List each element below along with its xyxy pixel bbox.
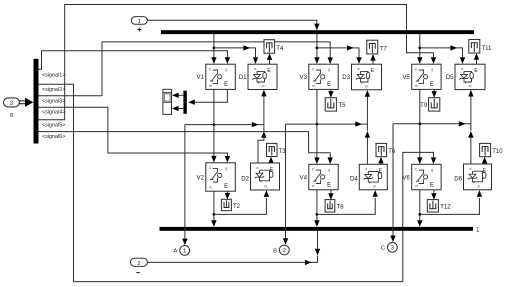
demux (gate signals) — [34, 59, 39, 144]
svg-text:1: 1 — [138, 19, 141, 25]
wire V2 E to terminator T2 — [225, 191, 230, 199]
svg-text:<signal6>: <signal6> — [42, 134, 65, 140]
output port A (1) — [174, 246, 190, 256]
svg-text:m: m — [264, 185, 267, 189]
svg-text:g: g — [328, 68, 330, 72]
terminator T8 — [325, 200, 335, 212]
svg-text:g: g — [10, 112, 13, 118]
svg-text:T5: T5 — [339, 103, 347, 109]
svg-text:V5: V5 — [402, 74, 410, 81]
wire V5 E to terminator T9 — [432, 89, 437, 97]
wire DC+ to V5 collector and D5 anode (leg 3) — [417, 34, 465, 64]
wire D1 E to terminator T4 — [267, 53, 272, 64]
svg-text:a: a — [365, 167, 367, 171]
svg-text:a: a — [470, 167, 472, 171]
terminator T11 — [469, 40, 480, 54]
svg-text:E: E — [371, 68, 375, 74]
svg-text:V2: V2 — [197, 175, 205, 182]
DC negative bus bar (bottom) — [160, 227, 474, 231]
wire phase B to D4 anode — [365, 124, 370, 164]
wire signal3 to V3 gate — [39, 42, 333, 96]
terminator T4 — [264, 40, 275, 54]
svg-text:m: m — [477, 184, 480, 188]
input port 3 (g) — [4, 98, 20, 118]
svg-text:a: a — [257, 166, 259, 170]
svg-text:D6: D6 — [454, 176, 462, 183]
svg-text:E: E — [224, 82, 228, 88]
svg-text:A: A — [174, 249, 178, 255]
measurement demux bar — [183, 91, 186, 114]
diode block D6 — [464, 164, 492, 190]
svg-text:E: E — [327, 182, 331, 188]
svg-text:E: E — [430, 182, 434, 188]
wire DC+ to V3 collector and D3 anode (leg 2) — [314, 34, 362, 64]
diode block D4 — [359, 164, 387, 190]
svg-text:m: m — [469, 84, 472, 88]
svg-text:C: C — [381, 246, 385, 252]
svg-text:T9: T9 — [420, 103, 428, 109]
diode block D1 — [248, 64, 277, 89]
wire phase C to D6 anode — [468, 124, 473, 164]
svg-text:<signal5>: <signal5> — [42, 123, 65, 129]
diode block D5 — [455, 64, 485, 89]
svg-text:D1: D1 — [239, 74, 247, 81]
svg-text:V1: V1 — [197, 74, 205, 81]
wire D2 E to terminator T3 — [268, 157, 273, 164]
wire D4 E to terminator T6 — [378, 157, 383, 165]
svg-text:<signal3>: <signal3> — [42, 98, 65, 104]
wire phase A to D2 anode — [258, 125, 267, 163]
wire port1 to DC+ bar — [147, 20, 319, 30]
svg-text:D3: D3 — [342, 74, 350, 81]
transistor block V2 — [206, 163, 236, 191]
wire V3 E to terminator T5 — [328, 89, 333, 97]
terminator T5 — [325, 98, 336, 111]
terminator T2 — [221, 199, 231, 210]
svg-text:a: a — [358, 67, 360, 71]
svg-text:D5: D5 — [446, 74, 454, 81]
wire V2 emitter-m to DC- bar and D2 m (leg 1) — [211, 190, 269, 227]
output port C (3) — [381, 242, 397, 252]
svg-text:T7: T7 — [380, 47, 388, 53]
wire signal1 to V1 gate — [39, 51, 231, 70]
svg-text:a: a — [254, 67, 256, 71]
svg-text:T3: T3 — [279, 149, 287, 155]
svg-text:T6: T6 — [388, 149, 396, 155]
wire DC+ to V1 collector and D1 anode (leg 1) — [211, 34, 258, 64]
svg-text:T8: T8 — [337, 205, 345, 211]
wire demux to measurement block top — [172, 93, 183, 98]
wire phase B node (midpoint leg 2) — [283, 89, 370, 244]
svg-text:D2: D2 — [241, 176, 249, 183]
wire V4 emitter-m to DC- bar and D4 m (leg 2) — [314, 190, 378, 227]
output port B (2) — [273, 245, 289, 255]
transistor block V1 — [206, 64, 236, 89]
transistor block V3 — [309, 64, 338, 89]
svg-text:1: 1 — [183, 249, 186, 255]
terminator T9 — [429, 98, 440, 111]
transistor block V5 — [412, 64, 441, 89]
svg-text:g: g — [225, 166, 227, 170]
svg-text:m: m — [415, 184, 418, 188]
wire V1 emitter to measurement demux — [188, 89, 227, 105]
svg-text:E: E — [327, 82, 331, 88]
DC positive bus bar (top) — [161, 30, 474, 34]
transistor block V4 — [309, 164, 338, 190]
svg-text:D4: D4 — [350, 176, 358, 183]
wire D3 E to terminator T7 — [370, 54, 375, 64]
terminator T3 — [267, 143, 278, 156]
svg-text:1: 1 — [476, 227, 480, 234]
wire phase C node (midpoint leg 3) — [390, 89, 473, 242]
svg-text:T2: T2 — [233, 204, 241, 210]
svg-text:<signal1>: <signal1> — [42, 72, 65, 78]
diode block D2 — [251, 163, 280, 190]
svg-text:3: 3 — [391, 246, 394, 252]
svg-text:V3: V3 — [300, 74, 308, 81]
transistor block V6 — [412, 164, 441, 190]
svg-text:T11: T11 — [482, 46, 493, 52]
svg-text:m: m — [209, 84, 212, 88]
wire D5 E to terminator T11 — [474, 53, 479, 64]
svg-text:m: m — [373, 184, 376, 188]
svg-text:E: E — [430, 82, 434, 88]
terminator T12 — [427, 200, 438, 212]
svg-text:E: E — [474, 68, 478, 74]
svg-text:g: g — [328, 168, 330, 172]
svg-text:<signal2>: <signal2> — [42, 87, 65, 93]
input port 2 (-) — [130, 258, 147, 272]
wire port2 to DC- bar — [148, 231, 321, 265]
svg-text:m: m — [365, 84, 368, 88]
wire demux to measurement block bottom — [172, 106, 183, 111]
svg-text:E: E — [267, 68, 271, 74]
wire signal4 to V2 gate — [39, 107, 231, 162]
svg-text:m: m — [262, 84, 265, 88]
svg-text:T4: T4 — [276, 46, 284, 52]
svg-text:V4: V4 — [300, 175, 308, 182]
svg-text:B: B — [273, 248, 277, 254]
svg-text:2: 2 — [137, 261, 140, 267]
measurement block (two-port) — [163, 89, 172, 114]
svg-text:g: g — [431, 68, 433, 72]
svg-text:<signal4>: <signal4> — [42, 110, 65, 116]
svg-text:T12: T12 — [440, 205, 451, 211]
svg-text:m: m — [209, 186, 212, 190]
svg-text:a: a — [461, 67, 463, 71]
svg-text:g: g — [225, 68, 227, 72]
svg-text:V6: V6 — [402, 175, 410, 182]
svg-text:m: m — [415, 84, 418, 88]
wire D6 E to terminator T10 — [482, 157, 487, 164]
wire signal5 to V5 gate (around top) — [39, 5, 437, 120]
diode block D3 — [352, 64, 382, 90]
svg-text:m: m — [312, 84, 315, 88]
terminator T10 — [480, 143, 491, 156]
svg-text:m: m — [312, 184, 315, 188]
wire V6 E to terminator T12 — [431, 190, 436, 200]
svg-text:2: 2 — [283, 248, 286, 254]
wire signal2 to V6 gate (around bottom) — [39, 84, 437, 281]
svg-text:g: g — [431, 168, 433, 172]
wire phase A node (midpoint leg 1) — [182, 89, 266, 245]
svg-text:T10: T10 — [492, 149, 503, 155]
terminator T6 — [376, 143, 387, 156]
wire signal6 to V4 gate — [39, 132, 333, 164]
input port 1 (+) — [131, 17, 147, 32]
terminator T7 — [367, 40, 378, 54]
wire V6 emitter-m to DC- bar and D6 m (leg 3) — [417, 190, 482, 227]
wire port3 bus to demux — [19, 98, 33, 107]
svg-text:E: E — [224, 184, 228, 190]
wire V4 E to terminator T8 — [328, 190, 333, 200]
